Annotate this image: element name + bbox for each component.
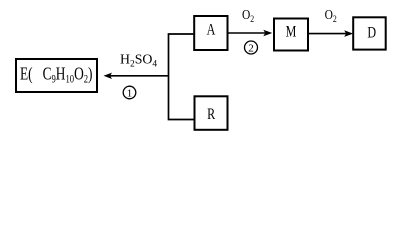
circled 1 (123, 86, 136, 99)
svg-text:R: R (207, 107, 216, 124)
svg-text:2: 2 (248, 43, 254, 55)
box A (194, 16, 227, 50)
svg-text:O2: O2 (325, 7, 337, 24)
svg-text:E( C9H10O2): E( C9H10O2) (20, 65, 92, 86)
box M (274, 19, 308, 51)
svg-text:O2: O2 (242, 7, 254, 24)
circled 2 (245, 41, 258, 55)
box R (195, 96, 228, 130)
svg-text:A: A (207, 22, 216, 39)
svg-text:M: M (286, 24, 297, 41)
wire trunk: A branch, vertical, R branch (169, 34, 194, 120)
svg-text:H2SO4: H2SO4 (120, 53, 157, 70)
box E (16, 59, 97, 92)
wire arrow M to D (309, 30, 353, 37)
svg-text:1: 1 (127, 88, 133, 100)
box D (353, 17, 386, 49)
wire arrow A to M (228, 30, 272, 37)
wire arrow to E (104, 73, 169, 79)
svg-text:D: D (367, 25, 376, 42)
